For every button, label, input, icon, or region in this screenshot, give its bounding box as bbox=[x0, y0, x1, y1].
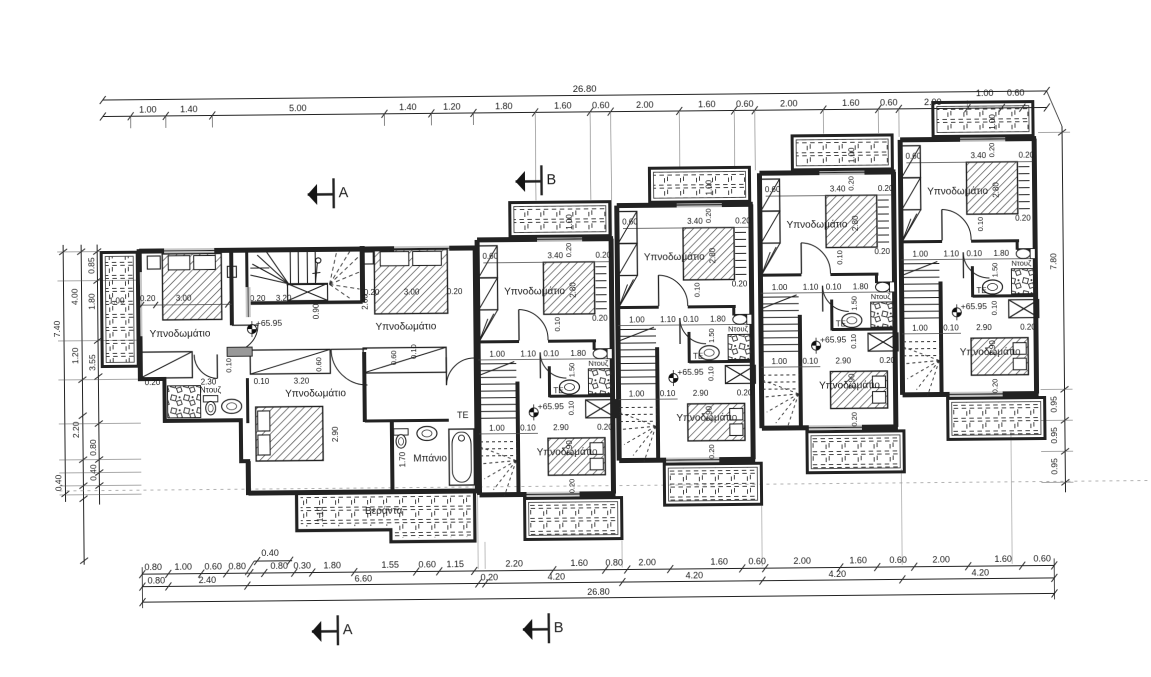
svg-text:0.95: 0.95 bbox=[1049, 427, 1059, 444]
svg-text:3.00: 3.00 bbox=[404, 287, 420, 296]
svg-text:1.55: 1.55 bbox=[381, 560, 399, 570]
svg-text:Ντουζ: Ντουζ bbox=[588, 359, 609, 368]
svg-text:0.10: 0.10 bbox=[409, 344, 418, 359]
svg-text:1.40: 1.40 bbox=[399, 102, 417, 112]
svg-text:1.10: 1.10 bbox=[520, 349, 536, 358]
svg-text:1.20: 1.20 bbox=[443, 102, 461, 112]
svg-text:+65.95: +65.95 bbox=[256, 318, 283, 328]
svg-text:A: A bbox=[339, 185, 349, 201]
svg-text:7.40: 7.40 bbox=[52, 320, 62, 337]
svg-text:0.10: 0.10 bbox=[520, 423, 536, 432]
svg-text:3.20: 3.20 bbox=[276, 294, 292, 303]
svg-text:Υπνοδωμάτιο: Υπνοδωμάτιο bbox=[150, 327, 211, 340]
svg-text:0.20: 0.20 bbox=[480, 572, 498, 582]
svg-text:0.10: 0.10 bbox=[553, 317, 562, 332]
svg-text:Ντουζ: Ντουζ bbox=[200, 385, 222, 394]
svg-text:4.20: 4.20 bbox=[685, 570, 703, 580]
svg-text:0,40: 0,40 bbox=[53, 474, 63, 491]
svg-text:1.70: 1.70 bbox=[398, 451, 407, 467]
svg-text:0.60: 0.60 bbox=[314, 357, 323, 372]
svg-text:0.20: 0.20 bbox=[447, 287, 463, 296]
svg-text:4.20: 4.20 bbox=[547, 572, 565, 582]
svg-text:1.60: 1.60 bbox=[698, 99, 716, 109]
svg-text:0.20: 0.20 bbox=[564, 243, 573, 258]
svg-text:0.90: 0.90 bbox=[312, 303, 321, 319]
svg-text:B: B bbox=[554, 620, 564, 636]
svg-text:0.40: 0.40 bbox=[261, 548, 279, 558]
svg-text:0.20: 0.20 bbox=[140, 294, 156, 303]
svg-text:0.10: 0.10 bbox=[567, 401, 576, 416]
svg-text:0.80: 0.80 bbox=[228, 561, 246, 571]
svg-text:0.80: 0.80 bbox=[270, 561, 288, 571]
svg-text:TE: TE bbox=[457, 410, 469, 420]
svg-text:0.60: 0.60 bbox=[736, 99, 754, 109]
svg-text:2.00: 2.00 bbox=[638, 557, 656, 567]
svg-text:3.55: 3.55 bbox=[87, 354, 97, 371]
svg-text:0.60: 0.60 bbox=[880, 97, 898, 107]
svg-text:0.30: 0.30 bbox=[293, 561, 311, 571]
svg-text:TE: TE bbox=[553, 386, 563, 395]
svg-text:0.60: 0.60 bbox=[1007, 88, 1025, 98]
svg-text:0.80: 0.80 bbox=[88, 439, 98, 456]
svg-text:0.60: 0.60 bbox=[418, 559, 436, 569]
svg-text:0.60: 0.60 bbox=[204, 561, 222, 571]
svg-text:2.90: 2.90 bbox=[553, 423, 569, 432]
svg-text:3.40: 3.40 bbox=[547, 251, 563, 260]
svg-text:0.20: 0.20 bbox=[597, 423, 613, 432]
svg-text:0.60: 0.60 bbox=[389, 350, 398, 365]
svg-text:+65.95: +65.95 bbox=[538, 401, 565, 411]
svg-text:2.40: 2.40 bbox=[199, 575, 217, 585]
svg-text:0.20: 0.20 bbox=[364, 288, 380, 297]
svg-text:2.20: 2.20 bbox=[505, 559, 523, 569]
svg-text:Βεράντα: Βεράντα bbox=[365, 505, 403, 517]
svg-text:0.20: 0.20 bbox=[592, 314, 608, 323]
svg-text:1.00: 1.00 bbox=[976, 88, 994, 98]
svg-text:2.00: 2.00 bbox=[793, 556, 811, 566]
svg-text:Μπάνιο: Μπάνιο bbox=[413, 452, 447, 464]
svg-text:0.80: 0.80 bbox=[144, 562, 162, 572]
svg-text:1.20: 1.20 bbox=[70, 347, 80, 364]
svg-text:1.80: 1.80 bbox=[87, 293, 97, 310]
svg-text:1.00: 1.00 bbox=[109, 296, 125, 305]
svg-text:4.20: 4.20 bbox=[971, 568, 989, 578]
svg-text:0.20: 0.20 bbox=[567, 479, 576, 494]
svg-text:1.10: 1.10 bbox=[316, 506, 325, 522]
svg-text:1.00: 1.00 bbox=[139, 105, 157, 115]
svg-text:Υπνοδωμάτιο: Υπνοδωμάτιο bbox=[285, 387, 346, 400]
svg-text:0.95: 0.95 bbox=[1049, 458, 1059, 475]
svg-text:1.60: 1.60 bbox=[994, 554, 1012, 564]
svg-text:1.80: 1.80 bbox=[570, 349, 586, 358]
svg-text:1.00: 1.00 bbox=[174, 562, 192, 572]
svg-text:0.60: 0.60 bbox=[592, 100, 610, 110]
svg-text:4.20: 4.20 bbox=[828, 569, 846, 579]
svg-text:0.85: 0.85 bbox=[86, 257, 96, 274]
svg-text:6.60: 6.60 bbox=[355, 573, 373, 583]
svg-text:1.60: 1.60 bbox=[710, 557, 728, 567]
svg-text:A: A bbox=[343, 622, 353, 638]
svg-text:Υπνοδωμάτιο: Υπνοδωμάτιο bbox=[504, 285, 565, 298]
svg-text:1.80: 1.80 bbox=[323, 560, 341, 570]
svg-text:1.00: 1.00 bbox=[489, 350, 505, 359]
svg-text:2.80: 2.80 bbox=[568, 282, 577, 298]
svg-text:0.60: 0.60 bbox=[889, 555, 907, 565]
svg-text:0.95: 0.95 bbox=[1049, 396, 1059, 413]
svg-text:7.80: 7.80 bbox=[1048, 253, 1058, 270]
svg-text:1.80: 1.80 bbox=[495, 101, 513, 111]
svg-text:2.00: 2.00 bbox=[636, 100, 654, 110]
svg-text:4.00: 4.00 bbox=[70, 288, 80, 305]
svg-text:3.20: 3.20 bbox=[294, 377, 310, 386]
svg-text:26.80: 26.80 bbox=[587, 587, 610, 597]
svg-text:1.40: 1.40 bbox=[180, 104, 198, 114]
svg-text:1.60: 1.60 bbox=[570, 558, 588, 568]
svg-text:2.00: 2.00 bbox=[932, 554, 950, 564]
svg-text:1.15: 1.15 bbox=[446, 559, 464, 569]
svg-text:0.20: 0.20 bbox=[145, 378, 161, 387]
svg-text:1.60: 1.60 bbox=[554, 101, 572, 111]
svg-text:B: B bbox=[546, 172, 556, 188]
svg-text:2.90: 2.90 bbox=[331, 426, 340, 442]
svg-text:Υπνοδωμάτιο: Υπνοδωμάτιο bbox=[375, 320, 436, 333]
svg-text:26.80: 26.80 bbox=[573, 84, 597, 95]
svg-text:1.50: 1.50 bbox=[567, 363, 576, 378]
svg-text:5.00: 5.00 bbox=[289, 103, 307, 113]
svg-text:1.60: 1.60 bbox=[842, 98, 860, 108]
svg-text:0.10: 0.10 bbox=[224, 358, 233, 373]
svg-text:0.80: 0.80 bbox=[148, 575, 166, 585]
svg-text:1.00: 1.00 bbox=[489, 424, 505, 433]
svg-text:2.00: 2.00 bbox=[780, 98, 798, 108]
svg-text:0.60: 0.60 bbox=[748, 556, 766, 566]
svg-text:3.00: 3.00 bbox=[176, 294, 192, 303]
svg-text:0.20: 0.20 bbox=[250, 294, 266, 303]
svg-text:0.10: 0.10 bbox=[543, 349, 559, 358]
svg-text:0.60: 0.60 bbox=[1033, 553, 1051, 563]
svg-text:0.10: 0.10 bbox=[254, 377, 270, 386]
svg-text:0.20: 0.20 bbox=[595, 251, 611, 260]
svg-text:1.00: 1.00 bbox=[565, 214, 574, 230]
svg-text:1.60: 1.60 bbox=[849, 555, 867, 565]
svg-text:2.90: 2.90 bbox=[565, 440, 574, 456]
